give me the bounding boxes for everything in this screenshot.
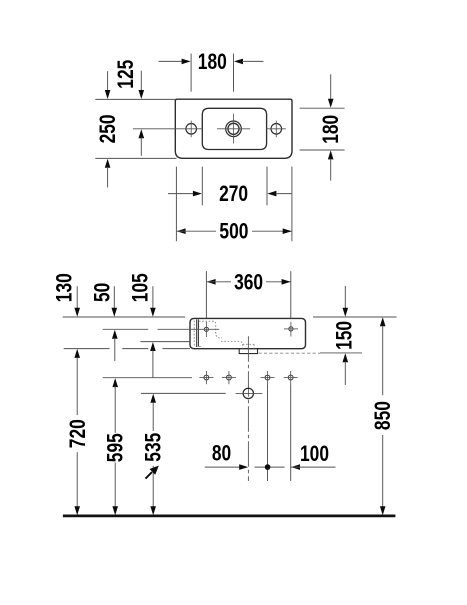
svg-text:250: 250 — [96, 114, 120, 143]
svg-text:595: 595 — [104, 433, 128, 462]
svg-text:500: 500 — [219, 220, 248, 244]
svg-text:180: 180 — [198, 50, 227, 74]
svg-text:270: 270 — [219, 182, 248, 206]
svg-text:125: 125 — [114, 60, 138, 89]
svg-text:105: 105 — [128, 273, 152, 302]
svg-text:180: 180 — [319, 115, 343, 144]
svg-text:130: 130 — [53, 273, 77, 302]
svg-text:360: 360 — [234, 270, 263, 294]
svg-text:150: 150 — [332, 321, 356, 350]
svg-text:850: 850 — [371, 401, 395, 430]
svg-text:100: 100 — [300, 442, 329, 466]
svg-text:50: 50 — [91, 283, 115, 302]
svg-text:535: 535 — [142, 433, 166, 462]
svg-text:80: 80 — [212, 442, 231, 466]
svg-text:720: 720 — [66, 419, 90, 448]
